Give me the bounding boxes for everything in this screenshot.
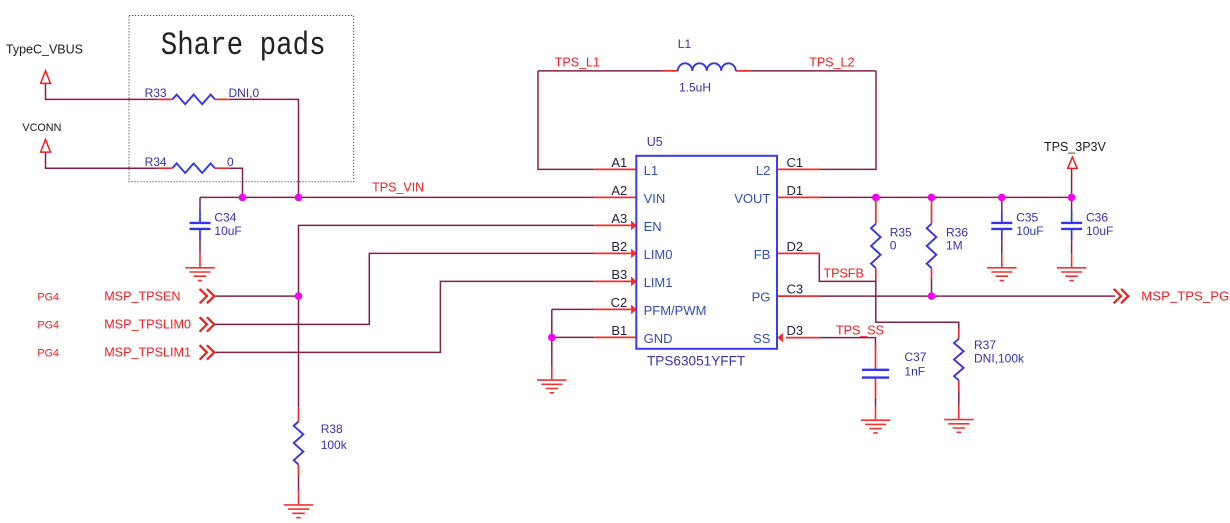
svg-text:TPSFB: TPSFB <box>824 266 864 280</box>
svg-text:LIM1: LIM1 <box>644 275 673 290</box>
svg-text:1.5uH: 1.5uH <box>679 80 711 94</box>
svg-text:PG4: PG4 <box>37 348 59 360</box>
svg-text:R36: R36 <box>946 225 968 239</box>
svg-text:Share pads: Share pads <box>161 27 326 64</box>
svg-text:L1: L1 <box>678 37 692 51</box>
svg-text:B3: B3 <box>611 267 627 282</box>
svg-text:C3: C3 <box>787 282 804 297</box>
svg-text:L2: L2 <box>756 163 770 178</box>
svg-text:C37: C37 <box>904 350 926 364</box>
svg-text:U5: U5 <box>647 135 663 149</box>
svg-text:PG: PG <box>752 290 771 305</box>
svg-text:B2: B2 <box>611 239 627 254</box>
svg-text:VCONN: VCONN <box>22 122 61 134</box>
svg-text:R37: R37 <box>974 338 996 352</box>
svg-text:0: 0 <box>890 239 897 253</box>
svg-text:10uF: 10uF <box>1086 224 1113 238</box>
svg-text:FB: FB <box>754 247 771 262</box>
svg-text:100k: 100k <box>321 438 348 452</box>
svg-text:PFM/PWM: PFM/PWM <box>644 303 707 318</box>
svg-text:0: 0 <box>227 155 234 169</box>
svg-text:C35: C35 <box>1016 211 1038 225</box>
svg-text:D2: D2 <box>787 239 804 254</box>
svg-text:R38: R38 <box>321 422 343 436</box>
svg-text:R33: R33 <box>145 86 167 100</box>
svg-text:10uF: 10uF <box>1016 224 1043 238</box>
svg-text:GND: GND <box>644 331 673 346</box>
svg-text:B1: B1 <box>611 323 627 338</box>
svg-text:C36: C36 <box>1086 211 1108 225</box>
svg-text:A1: A1 <box>611 155 627 170</box>
svg-text:DNI,0: DNI,0 <box>229 86 260 100</box>
svg-text:1M: 1M <box>946 239 963 253</box>
svg-text:MSP_TPSEN: MSP_TPSEN <box>104 289 180 303</box>
svg-text:TPS_L1: TPS_L1 <box>555 55 600 69</box>
svg-text:A3: A3 <box>611 211 627 226</box>
svg-text:1nF: 1nF <box>904 365 925 379</box>
svg-text:D3: D3 <box>787 323 804 338</box>
svg-text:MSP_TPS_PG: MSP_TPS_PG <box>1141 288 1229 303</box>
svg-text:TPS_3P3V: TPS_3P3V <box>1044 140 1107 154</box>
svg-text:PG4: PG4 <box>37 291 59 303</box>
svg-text:MSP_TPSLIM0: MSP_TPSLIM0 <box>104 318 191 332</box>
svg-text:MSP_TPSLIM1: MSP_TPSLIM1 <box>104 346 191 360</box>
svg-text:PG4: PG4 <box>37 320 59 332</box>
svg-text:C1: C1 <box>787 155 804 170</box>
svg-text:D1: D1 <box>787 183 804 198</box>
svg-text:A2: A2 <box>611 183 627 198</box>
svg-text:DNI,100k: DNI,100k <box>974 351 1025 365</box>
svg-text:LIM0: LIM0 <box>644 247 673 262</box>
svg-text:C34: C34 <box>214 211 236 225</box>
svg-text:L1: L1 <box>644 163 658 178</box>
svg-text:R35: R35 <box>890 225 912 239</box>
svg-text:C2: C2 <box>611 295 628 310</box>
svg-text:VIN: VIN <box>644 191 666 206</box>
svg-text:SS: SS <box>753 331 771 346</box>
svg-text:EN: EN <box>644 219 662 234</box>
svg-text:10uF: 10uF <box>214 224 241 238</box>
svg-text:R34: R34 <box>145 155 167 169</box>
svg-text:TPS_L2: TPS_L2 <box>809 55 854 69</box>
svg-text:TypeC_VBUS: TypeC_VBUS <box>6 42 83 56</box>
svg-text:TPS63051YFFT: TPS63051YFFT <box>647 354 745 369</box>
svg-text:VOUT: VOUT <box>734 191 770 206</box>
svg-text:TPS_VIN: TPS_VIN <box>372 181 424 195</box>
svg-text:TPS_SS: TPS_SS <box>836 323 884 337</box>
